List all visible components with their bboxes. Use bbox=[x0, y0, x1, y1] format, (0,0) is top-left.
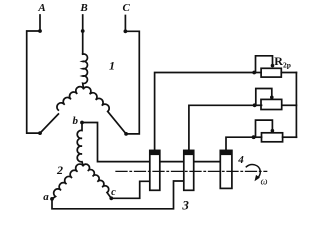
node B bbox=[81, 29, 85, 33]
svg-text:R: R bbox=[274, 54, 283, 68]
rotation arrow bbox=[246, 164, 260, 177]
rotor winding 2 vertical coil bbox=[77, 124, 83, 166]
stator winding 1 vertical coil bbox=[83, 54, 88, 89]
shaft center line bbox=[116, 170, 267, 172]
wire phase A bbox=[27, 15, 59, 133]
node A bbox=[38, 29, 42, 33]
svg-text:4: 4 bbox=[237, 154, 244, 166]
svg-text:c: c bbox=[111, 187, 116, 198]
rotor winding 2 right coil bbox=[83, 164, 111, 198]
svg-text:C: C bbox=[123, 2, 131, 14]
node C bbox=[124, 29, 128, 33]
brush wire ring 2 to resistor 2 bbox=[189, 105, 255, 150]
node a bbox=[50, 197, 54, 201]
wire c to slip ring 1 bbox=[111, 181, 150, 198]
wire a to slip ring 2 bbox=[52, 181, 184, 209]
node c bbox=[109, 196, 113, 200]
wire phase B bbox=[82, 15, 84, 54]
stator winding 1 right coil bbox=[84, 87, 110, 111]
stator winding 1 left coil bbox=[57, 87, 84, 110]
resistor R2p middle bbox=[253, 89, 297, 110]
slip ring 3 body bbox=[220, 150, 232, 188]
svg-text:B: B bbox=[79, 2, 87, 14]
brush wire ring 1 to resistor 1 bbox=[155, 73, 255, 151]
resistor R2p bottom bbox=[252, 120, 297, 142]
resistor R2p top bbox=[252, 56, 296, 77]
node b bbox=[80, 121, 84, 125]
svg-text:b: b bbox=[72, 115, 78, 127]
node winding1 left end bbox=[38, 131, 42, 135]
rotor winding 2 left coil bbox=[52, 164, 83, 199]
slip ring 1 body bbox=[149, 150, 160, 190]
svg-text:2p: 2p bbox=[283, 61, 291, 70]
svg-text:1: 1 bbox=[109, 59, 115, 73]
slip ring 2 body bbox=[183, 150, 194, 190]
svg-text:2: 2 bbox=[56, 163, 63, 177]
svg-text:3: 3 bbox=[181, 197, 189, 212]
brush wire ring 3 to resistor 3 bbox=[226, 137, 254, 150]
svg-text:a: a bbox=[43, 191, 49, 203]
wire phase C bbox=[108, 16, 140, 134]
node winding1 right end bbox=[124, 132, 128, 136]
star point bus bbox=[295, 73, 297, 138]
svg-text:ω: ω bbox=[260, 177, 267, 188]
wire b to slip ring 3 bbox=[82, 123, 220, 162]
svg-text:A: A bbox=[37, 2, 45, 14]
